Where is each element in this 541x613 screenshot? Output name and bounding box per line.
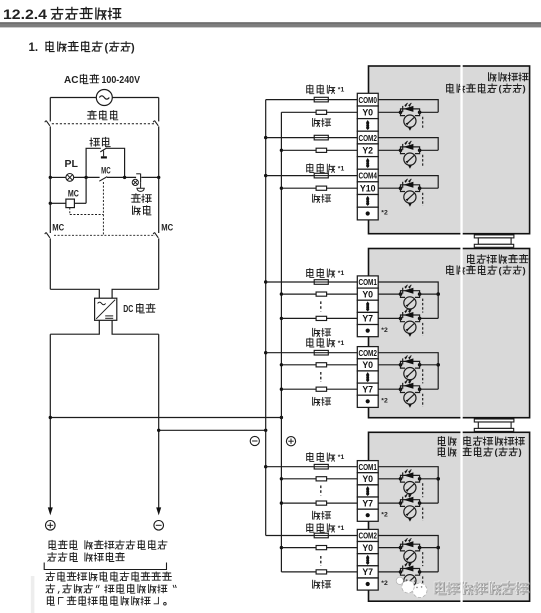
wire LED branch [401, 109, 420, 112]
optocoupler dashed [422, 508, 424, 521]
svg-text:Y0: Y0 [362, 543, 373, 553]
LED arrows [405, 380, 408, 383]
phototransistor [401, 389, 406, 392]
title basic unit line2 [447, 84, 497, 93]
node cell right [418, 477, 422, 481]
fuse F [314, 464, 328, 469]
node cell left [399, 477, 403, 481]
LED diode [403, 288, 413, 294]
svg-text:*1: *1 [338, 340, 345, 347]
wire LED branch [401, 147, 420, 150]
wire right rail upper [158, 98, 160, 122]
svg-text:Y0: Y0 [362, 360, 373, 370]
svg-text:MC: MC [101, 166, 111, 176]
load [316, 546, 327, 550]
node plus feed tap [49, 416, 52, 419]
wire load row [281, 111, 316, 113]
svg-text:COM2: COM2 [358, 349, 377, 358]
node fuse row tap [264, 174, 267, 177]
label plus bus [286, 437, 295, 446]
LED arrows [405, 141, 408, 144]
terminal Y7 box [357, 312, 378, 324]
wire plus rail lower [49, 334, 51, 509]
terminal COM2 box [357, 529, 378, 541]
title output extension module [468, 255, 529, 264]
terminal spacer box [357, 195, 378, 208]
svg-text:Y7: Y7 [362, 567, 373, 577]
label load block2 groupA [313, 328, 331, 336]
load [316, 292, 327, 296]
title output extension line2 [447, 266, 497, 275]
load [316, 387, 327, 391]
node load row tap [280, 149, 283, 152]
phototransistor [401, 294, 406, 297]
terminal ellipsis symbol [366, 196, 370, 199]
DC power supply U1 [95, 298, 117, 320]
LED diode [403, 472, 413, 478]
breaker linkage dashed [52, 123, 155, 125]
svg-text:COM1: COM1 [358, 278, 377, 287]
optocoupler dashed [422, 117, 424, 130]
node cell right [418, 186, 422, 190]
note load power supply line1 [49, 540, 167, 549]
wire load row [281, 293, 316, 295]
svg-text:1.: 1. [29, 42, 39, 54]
terminal ellipsis symbol [366, 555, 370, 558]
wire fuse row [266, 281, 315, 283]
label load block1 row1 [313, 118, 331, 126]
svg-text:*2: *2 [381, 398, 388, 405]
node minus feed tap [157, 429, 160, 432]
svg-text:(: ( [105, 42, 109, 54]
ellipsis loads dashed [320, 301, 322, 311]
phototransistor [401, 112, 406, 115]
svg-text:MC: MC [68, 189, 79, 199]
node plus feed at bus [280, 416, 283, 419]
terminal plus [46, 521, 56, 531]
terminal reserved dot [366, 399, 370, 403]
node cell right [418, 149, 422, 153]
PLC block basic unit [369, 66, 530, 234]
terminal spacer box [357, 325, 378, 337]
load [316, 570, 327, 574]
node cell left [399, 186, 403, 190]
optocoupler dashed [422, 155, 424, 168]
phototransistor [401, 548, 406, 551]
pilot lamp PL [66, 174, 74, 182]
terminal COM1 box [357, 276, 378, 288]
wire COM feed [378, 100, 438, 113]
svg-text:DC: DC [123, 304, 133, 315]
wire output row [378, 502, 400, 504]
svg-text:*2: *2 [381, 580, 388, 587]
node cell right [418, 317, 422, 321]
label fuse with note1 [307, 164, 335, 173]
node cell right [418, 546, 422, 550]
LED diode [403, 497, 413, 503]
terminal spacer box [357, 119, 378, 132]
terminal COM2 box [357, 347, 378, 359]
wire output row [378, 388, 400, 390]
terminal ellipsis symbol [366, 486, 370, 489]
wire right rail mid [158, 177, 160, 233]
load [316, 316, 327, 320]
LED arrows [405, 538, 408, 541]
terminal reserved dot [366, 329, 370, 333]
wire load row [281, 388, 316, 390]
wire LED branch [401, 361, 420, 364]
node branch left [84, 176, 87, 179]
wire output row [378, 149, 400, 151]
optocoupler dashed [422, 323, 424, 336]
node cell right [418, 387, 422, 391]
terminal minus [154, 521, 164, 531]
wire load row [281, 478, 316, 480]
wire LED branch [401, 291, 420, 294]
LED arrows [405, 103, 408, 106]
contact MC left rail [49, 238, 51, 289]
label load block1 row3 [313, 194, 331, 202]
wire output row [378, 317, 400, 319]
optocoupler dashed [422, 394, 424, 407]
PLC block IO extension unit [369, 432, 530, 601]
bus minus vertical [265, 100, 267, 536]
node COM vertical tap [436, 292, 440, 296]
wire LED branch [401, 569, 420, 572]
svg-text:COM2: COM2 [358, 134, 377, 143]
svg-text:*1: *1 [338, 165, 345, 172]
wire fuse row [266, 352, 315, 354]
terminal COM1 box [357, 461, 378, 473]
svg-text:Y0: Y0 [362, 474, 373, 484]
wire output row [378, 187, 400, 189]
wire COM feed [378, 282, 438, 318]
terminal Y7 box [357, 497, 378, 509]
terminal spacer box [357, 485, 378, 497]
wire COM feed [378, 467, 438, 503]
load [316, 110, 327, 114]
svg-text:*2: *2 [381, 327, 388, 334]
ellipsis loads dashed [320, 372, 322, 382]
wire output row [378, 478, 400, 480]
dashed link coil to contact [69, 208, 71, 215]
terminal spacer box [357, 395, 378, 407]
svg-text:Y7: Y7 [362, 498, 373, 508]
svg-text:PL: PL [65, 158, 79, 170]
node cell right [418, 292, 422, 296]
LED diode [403, 541, 413, 547]
expansion connector blocks 2-3 [474, 419, 514, 422]
terminal reserved dot [366, 513, 370, 517]
wire load row [281, 502, 316, 504]
wire output row [378, 111, 400, 113]
node fuse row tap [264, 280, 267, 283]
terminal Y0 box [357, 542, 378, 554]
wire fuse row [266, 137, 315, 139]
LED arrows [405, 563, 408, 566]
LED arrows [405, 470, 408, 473]
terminal Y7 box [357, 383, 378, 395]
wire minus feed to bus [159, 429, 266, 431]
wire AC to DC supply [50, 289, 99, 298]
wire load row [281, 317, 316, 319]
terminal ellipsis symbol [366, 158, 370, 161]
label load block3 groupB [313, 580, 331, 588]
wire LED branch [401, 185, 420, 188]
node load row tap [280, 292, 283, 295]
coil MC [66, 199, 75, 208]
node fuse row tap [264, 351, 267, 354]
terminal spacer box [357, 554, 378, 566]
svg-text:*2: *2 [381, 210, 388, 217]
node cell right [418, 570, 422, 574]
contact MC right rail [158, 238, 160, 289]
watermark paw logo [413, 583, 427, 597]
load [316, 477, 327, 481]
watermark text [436, 582, 529, 594]
phototransistor [401, 150, 406, 153]
node main row left [49, 176, 52, 179]
node cell left [399, 149, 403, 153]
terminal reserved dot [366, 582, 370, 586]
wire load row [281, 571, 316, 573]
svg-text:100-240V: 100-240V [102, 75, 141, 86]
node minus feed at bus [264, 429, 267, 432]
node cell right [418, 501, 422, 505]
terminal COM2 box [357, 131, 378, 144]
svg-text:): ) [131, 42, 135, 54]
svg-text:Y7: Y7 [362, 384, 373, 394]
note emergency stop line3 [47, 596, 158, 605]
phototransistor [401, 479, 406, 482]
wire output row [378, 293, 400, 295]
node coil row [49, 202, 52, 205]
node load row tap [280, 546, 283, 549]
wire main control row [50, 176, 66, 178]
svg-text:MC: MC [52, 223, 64, 233]
svg-text:Y2: Y2 [362, 145, 373, 155]
phototransistor [401, 188, 406, 191]
terminal Y0 box [357, 288, 378, 300]
terminal ellipsis symbol [366, 120, 370, 123]
node load row tap [280, 363, 283, 366]
label load block2 groupB [313, 397, 331, 405]
terminal Y0 box [357, 473, 378, 485]
LED diode [403, 312, 413, 318]
wire fuse row [266, 175, 315, 177]
LED arrows [405, 356, 408, 359]
wire load row [281, 149, 316, 151]
LED arrows [405, 494, 408, 497]
arrow minus rail end [156, 507, 161, 515]
svg-text:COM0: COM0 [358, 96, 377, 105]
faint page stripe [31, 576, 35, 613]
breaker pole right [158, 126, 160, 177]
phototransistor [401, 365, 406, 368]
terminal Y0 box [357, 359, 378, 371]
phototransistor [401, 572, 406, 575]
node cell left [399, 111, 403, 115]
optocoupler dashed [422, 552, 424, 566]
wire output row [378, 547, 400, 549]
svg-text:Y10: Y10 [360, 183, 376, 193]
wire COM feed [378, 176, 438, 189]
node cell left [399, 501, 403, 505]
note load power supply line2 [48, 553, 125, 562]
wire left rail upper [49, 98, 51, 122]
note emergency stop line2 [46, 584, 176, 593]
load [316, 186, 327, 190]
heading rule bar [0, 22, 541, 23]
node cell right [418, 363, 422, 367]
dashed MC interlock row [54, 234, 155, 236]
node fuse row tap [264, 136, 267, 139]
LED diode [403, 383, 413, 389]
terminal Y7 box [357, 566, 378, 578]
wire COM feed [378, 353, 438, 390]
svg-text:Y0: Y0 [362, 108, 373, 118]
svg-text:*1: *1 [338, 270, 345, 277]
svg-text:*1: *1 [338, 454, 345, 461]
LED diode [403, 106, 413, 112]
node fuse row tap [264, 465, 267, 468]
wire fuse row [266, 99, 315, 101]
wire load row [281, 187, 316, 189]
wire left rail mid [49, 177, 51, 233]
breaker pole left [49, 126, 51, 177]
LED arrows [405, 309, 408, 312]
svg-text:COM4: COM4 [358, 172, 377, 181]
wire output row [378, 364, 400, 366]
LED diode [403, 182, 413, 188]
label fuse with note1 [307, 269, 335, 278]
node COM vertical tap [436, 477, 440, 481]
terminal Y2 box [357, 144, 378, 157]
LED arrows [405, 285, 408, 288]
wire power-on branch [86, 148, 101, 177]
load [316, 363, 327, 367]
wire plus feed to bus [50, 417, 281, 419]
terminal reserved dot [366, 211, 370, 215]
LED diode [403, 566, 413, 572]
node load row tap [280, 477, 283, 480]
wire LED branch [401, 475, 420, 478]
svg-text:*2: *2 [381, 511, 388, 518]
terminal spacer box [357, 157, 378, 170]
wire load row [281, 364, 316, 366]
label fuse with note1 [307, 85, 335, 94]
LED arrows [405, 179, 408, 182]
title IO extension unit [438, 437, 524, 446]
svg-text:*1: *1 [338, 525, 345, 532]
wire COM feed [378, 536, 438, 572]
arrow plus rail end [48, 507, 53, 515]
label minus bus [250, 436, 259, 445]
svg-text:): ) [523, 265, 526, 276]
node cell left [399, 317, 403, 321]
terminal spacer box [357, 578, 378, 590]
title IO extension line2 [438, 447, 493, 456]
node main row right [157, 176, 160, 179]
expansion connector blocks 1-2 [474, 235, 514, 238]
wire minus rail lower [158, 334, 160, 509]
optocoupler dashed [422, 576, 424, 589]
label fuse with note1 [307, 338, 335, 347]
LED diode [403, 144, 413, 150]
title basic unit [489, 73, 529, 81]
PLC block output extension module [369, 249, 530, 418]
node load row tap [280, 317, 283, 320]
fuse F [314, 280, 328, 285]
wire LED branch [401, 386, 420, 389]
terminal Y0 box [357, 106, 378, 119]
node cell left [399, 363, 403, 367]
terminal spacer box [357, 371, 378, 383]
node branch right [123, 176, 126, 179]
label fuse with note1 [307, 523, 335, 532]
svg-text:): ) [519, 447, 522, 458]
wire LED branch [401, 315, 420, 318]
fuse F [314, 533, 328, 538]
terminal spacer box [357, 300, 378, 312]
node cell left [399, 570, 403, 574]
load [316, 148, 327, 152]
label load block3 groupA [313, 511, 331, 519]
terminal ellipsis symbol [366, 372, 370, 375]
node COM vertical tap [436, 363, 440, 367]
optocoupler dashed [422, 299, 424, 313]
LED diode [403, 358, 413, 364]
wire output row [378, 571, 400, 573]
fuse F [314, 173, 328, 178]
label fuse with note1 [307, 453, 335, 462]
node COM vertical tap [436, 546, 440, 550]
dashed link contact down [102, 182, 104, 235]
label emergency stop [131, 194, 151, 203]
wire LED branch [401, 544, 420, 547]
optocoupler dashed [422, 483, 424, 497]
node cell left [399, 387, 403, 391]
terminal spacer box [357, 509, 378, 521]
bus plus vertical [280, 112, 282, 572]
svg-text:COM2: COM2 [358, 532, 377, 541]
ellipsis loads dashed [320, 486, 322, 496]
terminal COM4 box [357, 169, 378, 182]
node cell left [399, 292, 403, 296]
optocoupler dashed [422, 369, 424, 383]
terminal Y10 box [357, 182, 378, 195]
svg-text:): ) [523, 84, 526, 95]
ellipsis loads dashed [320, 556, 322, 566]
wire branch leg down to coil [85, 177, 87, 203]
node cell left [399, 546, 403, 550]
terminal COM0 box [357, 93, 378, 106]
label breaker [87, 111, 117, 120]
optocoupler dashed [422, 193, 424, 206]
wire COM feed [378, 138, 438, 151]
node cell right [418, 111, 422, 115]
svg-text:*1: *1 [338, 87, 345, 94]
wire DC supply outputs [50, 320, 99, 334]
wire fuse row [266, 535, 315, 537]
pushbutton PB power-on [100, 148, 106, 152]
svg-text:12.2.4: 12.2.4 [3, 7, 48, 22]
load [316, 501, 327, 505]
svg-text:AC: AC [64, 75, 78, 86]
svg-text:MC: MC [161, 223, 173, 233]
svg-text:COM1: COM1 [358, 463, 377, 472]
wire top AC feed [50, 97, 96, 99]
